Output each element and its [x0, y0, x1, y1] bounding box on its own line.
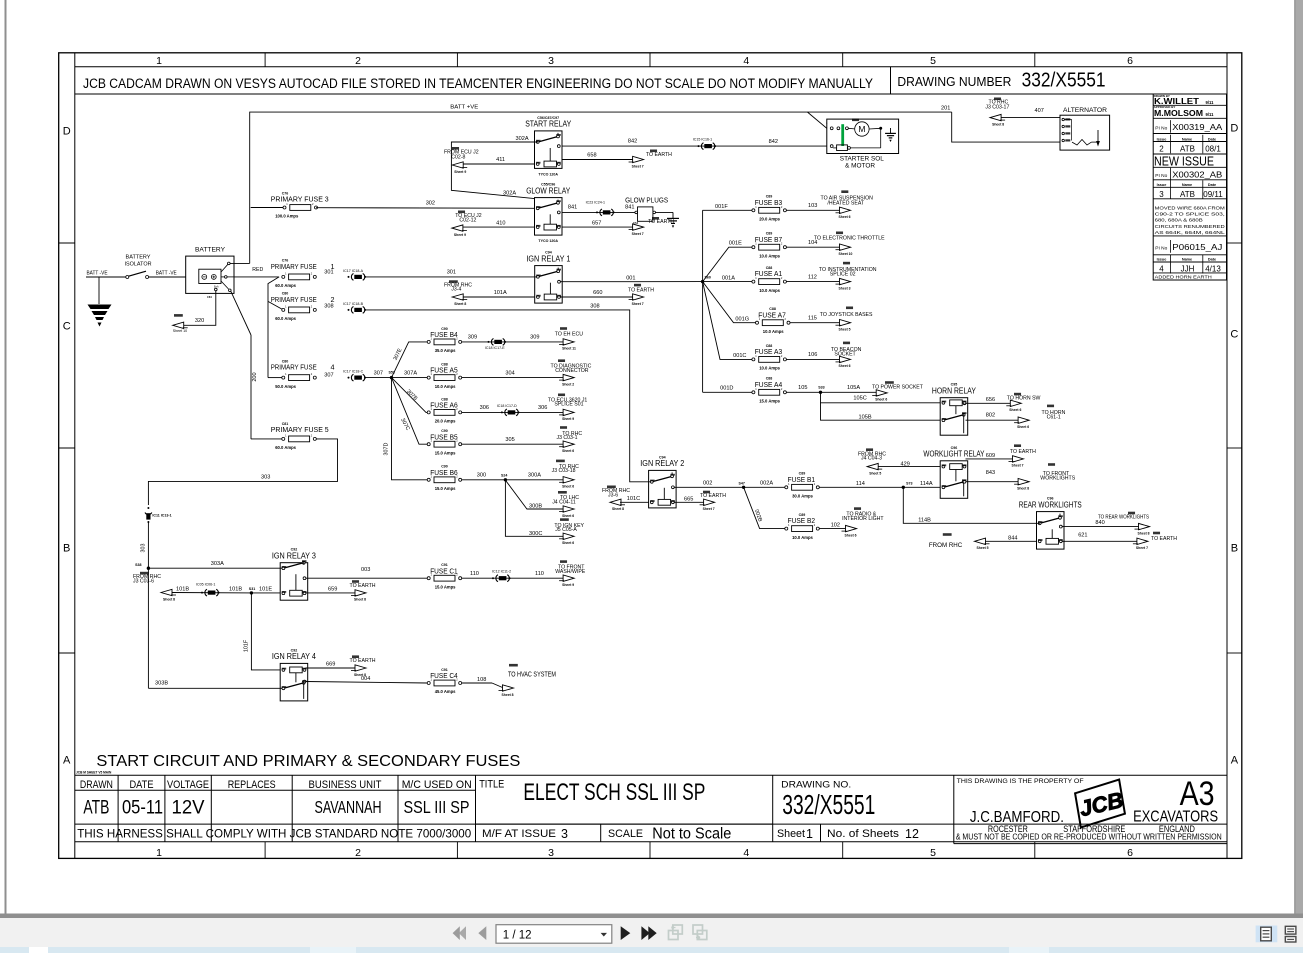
fuse A7 C88	[756, 307, 791, 334]
svg-text:FUSE A6: FUSE A6	[430, 401, 458, 410]
rear worklights relay C96	[1019, 497, 1082, 549]
node S38	[147, 567, 150, 570]
svg-text:PRIMARY FUSE: PRIMARY FUSE	[271, 363, 317, 372]
svg-text:FUSE B6: FUSE B6	[430, 468, 458, 477]
svg-text:J3 C03-17: J3 C03-17	[985, 104, 1009, 110]
svg-text:S73: S73	[906, 481, 912, 485]
wire 307C	[392, 378, 429, 445]
zone boundary ticks left	[59, 242, 75, 244]
svg-text:Name: Name	[1182, 183, 1192, 187]
svg-text:110: 110	[470, 571, 479, 577]
svg-text:Sheet 6: Sheet 6	[845, 533, 857, 537]
svg-text:VOLTAGE: VOLTAGE	[167, 779, 209, 791]
svg-text:C88: C88	[441, 363, 448, 367]
connector IC17 IC18-A	[348, 274, 367, 281]
svg-text:C90: C90	[441, 429, 448, 433]
svg-text:C76: C76	[282, 191, 289, 195]
svg-text:IC18 IC17-D: IC18 IC17-D	[497, 404, 517, 408]
svg-text:Sheet 5: Sheet 5	[839, 328, 851, 332]
svg-text:TYCO 120A: TYCO 120A	[538, 172, 558, 176]
svg-text:C92: C92	[291, 648, 298, 652]
svg-text:B: B	[1231, 543, 1238, 555]
svg-text:10.0 Amps: 10.0 Amps	[763, 329, 784, 334]
banner bottom line	[75, 93, 1227, 95]
svg-text:4: 4	[1159, 265, 1164, 274]
svg-text:407: 407	[1035, 108, 1044, 114]
svg-text:TO EARTH: TO EARTH	[350, 583, 376, 589]
svg-text:Sheet 7: Sheet 7	[632, 232, 644, 236]
svg-text:100.0 Amps: 100.0 Amps	[275, 214, 299, 219]
left panel divider line	[5, 0, 7, 914]
banner divider	[890, 67, 892, 94]
svg-text:Issue: Issue	[1157, 137, 1167, 141]
wire 114A	[903, 486, 940, 488]
svg-text:IGN RELAY 2: IGN RELAY 2	[640, 459, 684, 468]
primary fuse 5 C81	[271, 422, 329, 450]
svg-text:309: 309	[530, 335, 539, 341]
svg-text:4: 4	[743, 55, 749, 67]
svg-text:Sheet 8: Sheet 8	[502, 693, 514, 697]
svg-text:307: 307	[374, 370, 383, 376]
svg-text:SCALE: SCALE	[608, 828, 643, 840]
svg-text:WORKLIGHTS: WORKLIGHTS	[1040, 476, 1075, 482]
wire 308 to ign relay 2	[365, 310, 651, 482]
svg-text:& MOTOR: & MOTOR	[845, 163, 876, 170]
svg-text:TO HVAC SYSTEM: TO HVAC SYSTEM	[508, 670, 556, 679]
node S24	[504, 478, 507, 481]
svg-text:004: 004	[361, 676, 370, 682]
svg-text:5: 5	[930, 55, 936, 67]
wire 844 from RHC	[985, 540, 1037, 542]
wire 001D	[703, 391, 754, 393]
svg-text:300A: 300A	[528, 473, 541, 479]
svg-text:2: 2	[355, 847, 361, 859]
fuse A1 C88	[752, 266, 787, 293]
svg-text:J3 C03-1: J3 C03-1	[557, 435, 578, 441]
svg-text:003: 003	[361, 567, 370, 573]
svg-text:300B: 300B	[529, 503, 542, 509]
wire 001F	[703, 209, 754, 211]
svg-text:JCB M SHEET V5 MAIN: JCB M SHEET V5 MAIN	[76, 771, 112, 775]
svg-text:101A: 101A	[494, 290, 507, 296]
svg-text:PRIMARY FUSE 3: PRIMARY FUSE 3	[271, 195, 329, 204]
svg-text:No. of Sheets: No. of Sheets	[827, 828, 900, 840]
svg-text:IGN RELAY 1: IGN RELAY 1	[526, 254, 570, 263]
node S73	[902, 486, 905, 489]
toolbar continuous view icon	[1285, 926, 1296, 942]
svg-text:105: 105	[798, 385, 807, 391]
svg-text:Sheet 8: Sheet 8	[163, 597, 175, 601]
svg-text:105B: 105B	[859, 415, 872, 421]
svg-text:TO EARTH: TO EARTH	[350, 658, 376, 664]
svg-text:PRIMARY FUSE 5: PRIMARY FUSE 5	[271, 425, 329, 434]
toolbar nav first page button	[453, 926, 466, 940]
svg-text:CIRCUITS RENUMBERED: CIRCUITS RENUMBERED	[1155, 224, 1226, 230]
ground battery negative	[98, 277, 100, 304]
svg-text:301: 301	[324, 270, 333, 276]
svg-text:S33: S33	[818, 385, 824, 389]
svg-text:106: 106	[808, 352, 817, 358]
toolbar nav next page button	[621, 926, 631, 940]
svg-text:114A: 114A	[920, 481, 933, 487]
svg-text:307D: 307D	[384, 442, 390, 455]
svg-text:101B: 101B	[229, 587, 242, 593]
svg-text:C02-8: C02-8	[451, 155, 465, 161]
fuse B7 C89	[752, 232, 787, 259]
svg-text:TO JOYSTICK BASES: TO JOYSTICK BASES	[820, 312, 873, 318]
connector IC17 IC18-C	[348, 374, 367, 381]
connector IC11 IC13-1	[145, 507, 172, 523]
svg-text:C80: C80	[282, 292, 289, 296]
toolbar single page view selected	[1256, 926, 1278, 943]
svg-text:JJH: JJH	[1181, 265, 1195, 274]
svg-text:WORKLIGHT RELAY: WORKLIGHT RELAY	[923, 450, 985, 459]
connector IC23 IC24-1	[596, 209, 615, 216]
svg-text:C95: C95	[951, 383, 958, 387]
svg-text:15.0 Amps: 15.0 Amps	[435, 450, 456, 455]
svg-text:101E: 101E	[259, 587, 272, 593]
zone column right line	[1226, 53, 1228, 859]
ign relay 3 C92	[272, 548, 316, 601]
node S47	[742, 486, 745, 489]
wire 307A	[392, 377, 429, 379]
horn relay C95	[932, 383, 977, 436]
svg-text:609: 609	[986, 453, 995, 459]
title block frame lines	[75, 774, 1227, 776]
svg-text:C90: C90	[441, 327, 448, 331]
svg-text:BATT -VE: BATT -VE	[156, 271, 177, 277]
svg-text:Sheet 8: Sheet 8	[612, 507, 624, 511]
fuse C4 C91	[427, 668, 462, 694]
svg-text:10.0 Amps: 10.0 Amps	[759, 253, 780, 258]
svg-text:C96: C96	[951, 446, 958, 450]
wire 114 from fuse B1	[816, 486, 903, 488]
svg-text:GLOW PLUGS: GLOW PLUGS	[625, 196, 668, 205]
svg-text:15.0 Amps: 15.0 Amps	[759, 399, 780, 404]
svg-text:TITLE: TITLE	[479, 779, 504, 791]
svg-text:660: 660	[593, 290, 602, 296]
svg-text:306: 306	[480, 405, 489, 411]
fuse B4 C90	[427, 327, 462, 353]
svg-text:S24: S24	[501, 474, 507, 478]
wire 105B to horn relay	[821, 403, 941, 420]
wire BATT +VE top rail	[250, 112, 952, 263]
svg-text:10.0 Amps: 10.0 Amps	[759, 288, 780, 293]
svg-text:3: 3	[548, 847, 554, 859]
sheet outer frame	[59, 53, 1242, 859]
svg-text:002A: 002A	[760, 481, 773, 487]
svg-text:Sheet: Sheet	[777, 828, 805, 840]
wire 300C	[505, 480, 563, 537]
svg-text:FUSE A1: FUSE A1	[755, 269, 783, 278]
svg-text:20.0 Amps: 20.0 Amps	[759, 217, 780, 222]
svg-text:3: 3	[561, 827, 568, 841]
wire 105 to splice S33	[786, 391, 820, 393]
svg-text:114: 114	[856, 481, 865, 487]
svg-text:GLOW RELAY: GLOW RELAY	[526, 186, 571, 195]
svg-text:BUSINESS UNIT: BUSINESS UNIT	[309, 779, 382, 791]
svg-text:C90-2 TO SPLICE S03,: C90-2 TO SPLICE S03,	[1155, 212, 1225, 218]
svg-text:Sheet 7: Sheet 7	[703, 507, 715, 511]
toolbar nav prev page button	[478, 926, 486, 940]
revision block frame	[1153, 94, 1226, 280]
glow relay C55/C96	[526, 183, 571, 244]
wire 001G	[703, 282, 757, 323]
svg-text:TO EARTH: TO EARTH	[1010, 449, 1036, 455]
wire 840 to rear worklights	[1062, 526, 1139, 528]
svg-text:& MUST NOT BE COPIED OR RE-PRO: & MUST NOT BE COPIED OR RE-PRODUCED WITH…	[956, 832, 1222, 841]
svg-text:Sheet 7: Sheet 7	[632, 164, 644, 168]
wire 105A to power socket	[821, 391, 877, 393]
svg-text:802: 802	[986, 413, 995, 419]
wire 001C	[703, 282, 754, 360]
svg-text:Sheet 6: Sheet 6	[875, 398, 887, 402]
svg-text:200: 200	[252, 372, 258, 381]
svg-text:656: 656	[986, 397, 995, 403]
fuse B3 C89	[752, 195, 787, 222]
svg-text:Sheet 2: Sheet 2	[562, 382, 574, 386]
svg-text:INTERIOR LIGHT: INTERIOR LIGHT	[842, 516, 884, 522]
svg-text:60.0 Amps: 60.0 Amps	[275, 283, 296, 288]
alternator	[1060, 107, 1110, 150]
wire 001 to splice S60	[560, 281, 703, 283]
ign relay 4 C92	[272, 648, 317, 701]
svg-text:30.0 Amps: 30.0 Amps	[792, 494, 813, 499]
wire 002 to splice S47	[674, 486, 744, 488]
fuse A5 C88	[427, 363, 462, 389]
svg-text:C91: C91	[441, 563, 448, 567]
zone boundary ticks right	[1227, 242, 1242, 244]
svg-text:302A: 302A	[516, 136, 529, 142]
wire 101C	[620, 501, 649, 503]
fuse C1 C91	[427, 563, 462, 589]
svg-text:SAVANNAH: SAVANNAH	[315, 797, 382, 817]
svg-text:IC17 IC18-A: IC17 IC18-A	[343, 269, 363, 273]
svg-text:C88: C88	[766, 344, 773, 348]
svg-text:658: 658	[587, 153, 596, 159]
primary fuse 2 C80	[271, 292, 317, 321]
node S60 hub	[701, 280, 704, 283]
svg-text:IC18 IC17-E: IC18 IC17-E	[485, 346, 505, 350]
svg-text:Sheet 5: Sheet 5	[869, 471, 881, 475]
svg-text:680, 680A & 680B: 680, 680A & 680B	[1155, 218, 1203, 224]
svg-text:12: 12	[905, 827, 919, 841]
svg-text:IC12 IC11-2: IC12 IC11-2	[492, 569, 511, 573]
svg-text:307: 307	[324, 372, 333, 378]
svg-text:FUSE B2: FUSE B2	[788, 516, 816, 525]
top zone number row line	[75, 66, 1227, 68]
svg-text:MOVED WIRE 680A FROM: MOVED WIRE 680A FROM	[1155, 206, 1225, 212]
svg-text:Sheet 9: Sheet 9	[562, 583, 574, 587]
bottom zone ticks	[264, 842, 266, 859]
worklight relay C96	[923, 446, 985, 499]
svg-text:303B: 303B	[155, 681, 168, 687]
wire 001E	[703, 247, 754, 281]
connector IC17 IC18-B	[348, 307, 367, 314]
svg-text:TYCO 120A: TYCO 120A	[538, 239, 558, 243]
svg-text:4/13: 4/13	[1205, 265, 1221, 274]
svg-text:IC11 IC13-1: IC11 IC13-1	[152, 514, 171, 518]
svg-text:Date: Date	[1208, 137, 1216, 141]
svg-text:TO EARTH: TO EARTH	[648, 219, 674, 225]
svg-text:PI No: PI No	[1155, 246, 1167, 252]
svg-text:669: 669	[326, 662, 335, 668]
svg-text:SOCKET: SOCKET	[834, 351, 856, 357]
svg-text:Name: Name	[1182, 137, 1192, 141]
node S53 fan	[390, 376, 393, 379]
zone column left line	[74, 53, 76, 859]
toolbar page combo box	[496, 925, 612, 944]
svg-text:60.0 Amps: 60.0 Amps	[275, 316, 296, 321]
svg-text:TO EH ECU: TO EH ECU	[555, 332, 583, 338]
wire fan to fuse 4 bus	[268, 277, 279, 378]
svg-text:Not to Scale: Not to Scale	[652, 826, 731, 843]
svg-text:C89: C89	[766, 232, 773, 236]
svg-text:411: 411	[496, 157, 505, 163]
svg-text:308: 308	[324, 303, 333, 309]
svg-text:101C: 101C	[627, 496, 640, 502]
wire 665 to earth	[674, 501, 704, 503]
svg-text:308: 308	[590, 304, 599, 310]
JCB logo	[1072, 780, 1127, 828]
svg-text:M/F AT ISSUE: M/F AT ISSUE	[482, 828, 556, 840]
wire 842 to starter	[562, 145, 827, 147]
svg-text:002: 002	[703, 481, 712, 487]
svg-text:C94: C94	[659, 455, 666, 459]
svg-text:IC23 IC24-1: IC23 IC24-1	[586, 200, 605, 204]
svg-text:TO ELECTRONIC THROTTLE: TO ELECTRONIC THROTTLE	[814, 235, 885, 241]
svg-text:300: 300	[477, 473, 486, 479]
svg-text:115: 115	[808, 315, 817, 321]
svg-text:REAR WORKLIGHTS: REAR WORKLIGHTS	[1019, 500, 1082, 509]
top zone ticks	[264, 53, 266, 67]
svg-text:3: 3	[1159, 190, 1164, 199]
svg-text:Date: Date	[1208, 183, 1216, 187]
svg-text:2: 2	[355, 55, 361, 67]
svg-text:C56/C87/C97: C56/C87/C97	[537, 116, 559, 120]
svg-text:X00319_AA: X00319_AA	[1172, 122, 1222, 132]
svg-text:FUSE A4: FUSE A4	[755, 380, 783, 389]
svg-text:1: 1	[156, 847, 162, 859]
svg-text:DRAWING NUMBER: DRAWING NUMBER	[897, 74, 1011, 89]
svg-text:THIS HARNESS SHALL COMPLY: THIS HARNESS SHALL COMPLY WITH JCB STAND…	[77, 827, 471, 841]
svg-text:J5 C05-A: J5 C05-A	[555, 527, 577, 533]
svg-text:A3: A3	[1180, 775, 1215, 813]
node S33	[819, 391, 822, 394]
wire 307E	[392, 342, 429, 378]
svg-text:Sheet 11: Sheet 11	[562, 347, 576, 351]
wire 658 to earth	[562, 159, 633, 161]
wire 002A to fuse B1	[744, 486, 787, 488]
svg-text:C94: C94	[545, 251, 552, 255]
svg-text:307A: 307A	[404, 370, 417, 376]
svg-text:001C: 001C	[733, 353, 746, 359]
svg-text:1: 1	[806, 827, 813, 841]
svg-text:105C: 105C	[853, 396, 866, 402]
wire 303B to ign relay 4	[148, 687, 283, 689]
svg-text:C80: C80	[282, 360, 289, 364]
revision row issue 2	[1170, 120, 1172, 133]
svg-text:Sheet 8: Sheet 8	[354, 598, 366, 602]
svg-text:FUSE B1: FUSE B1	[788, 475, 816, 484]
wire 301 to ign relay 1	[365, 276, 538, 278]
svg-text:J3-4: J3-4	[451, 287, 461, 293]
svg-text:305: 305	[505, 437, 514, 443]
svg-text:841: 841	[568, 204, 577, 210]
wire 101E	[251, 592, 280, 594]
svg-text:Sheet 3: Sheet 3	[839, 286, 851, 290]
svg-text:ATB: ATB	[1180, 190, 1195, 199]
wire RED battery feed	[234, 276, 279, 278]
wire 001A	[703, 281, 754, 283]
svg-text:X00302_AB: X00302_AB	[1172, 170, 1222, 180]
svg-text:10.0 Amps: 10.0 Amps	[792, 535, 813, 540]
svg-text:M.MOLSOM: M.MOLSOM	[1154, 108, 1203, 118]
svg-text:Sheet 10: Sheet 10	[839, 252, 853, 256]
wire 307B	[392, 378, 429, 413]
svg-text:BATTERY: BATTERY	[195, 247, 225, 254]
wire 002B to fuse B2	[744, 487, 787, 528]
svg-text:Name: Name	[1182, 258, 1192, 262]
svg-text:J3-6: J3-6	[608, 493, 618, 499]
svg-text:FUSE B4: FUSE B4	[430, 330, 458, 339]
right scrollbar strip	[1295, 0, 1303, 914]
svg-text:C81: C81	[282, 422, 289, 426]
svg-text:C76: C76	[282, 259, 289, 263]
svg-text:C55/C96: C55/C96	[541, 183, 555, 187]
wire 004 to fuse C4	[306, 682, 428, 684]
svg-text:35.0 Amps: 35.0 Amps	[435, 348, 456, 353]
svg-text:102: 102	[831, 522, 840, 528]
svg-text:TO EARTH: TO EARTH	[1151, 536, 1177, 542]
svg-text:WASH/WIPE: WASH/WIPE	[555, 569, 586, 575]
wire 660 to earth	[560, 296, 633, 298]
svg-text:105A: 105A	[847, 385, 860, 391]
svg-text:ALTERNATOR: ALTERNATOR	[1063, 107, 1108, 114]
svg-text:4: 4	[331, 363, 335, 372]
svg-text:C91: C91	[441, 668, 448, 672]
svg-text:842: 842	[769, 139, 778, 145]
svg-text:D: D	[63, 126, 71, 138]
svg-text:SPLICE 02: SPLICE 02	[830, 272, 856, 278]
svg-text:FUSE B5: FUSE B5	[430, 432, 458, 441]
svg-text:D: D	[1230, 123, 1238, 135]
svg-text:Issue: Issue	[1157, 183, 1167, 187]
svg-text:ISOLATOR: ISOLATOR	[125, 261, 152, 267]
svg-text:SPLICE S01: SPLICE S01	[554, 402, 583, 408]
wire 656 to horn switch	[966, 402, 1011, 404]
svg-text:50.0 Amps: 50.0 Amps	[275, 384, 296, 389]
svg-text:FUSE B7: FUSE B7	[755, 235, 783, 244]
svg-text:SSL III SP: SSL III SP	[404, 797, 470, 817]
svg-text:S38: S38	[135, 563, 141, 567]
svg-text:Sheet 6: Sheet 6	[839, 215, 851, 219]
svg-text:S31: S31	[249, 587, 255, 591]
svg-text:IC17 IC18-C: IC17 IC18-C	[343, 370, 363, 374]
svg-text:302A: 302A	[503, 191, 516, 197]
wire 201 to alternator	[952, 112, 1060, 142]
wire 669 to earth	[306, 667, 356, 669]
wire 841 to glow plugs	[562, 211, 638, 213]
svg-text:PI No: PI No	[1155, 126, 1167, 132]
svg-text:IC15 IC16-1: IC15 IC16-1	[693, 138, 712, 142]
svg-text:DATE: DATE	[130, 779, 154, 791]
wire 302A start relay feed	[451, 142, 538, 199]
svg-text:IC05 IC06-1: IC05 IC06-1	[196, 583, 215, 587]
primary fuse 4 C80	[271, 360, 317, 389]
svg-text:PRIMARY FUSE: PRIMARY FUSE	[271, 295, 317, 304]
svg-text:C89: C89	[766, 195, 773, 199]
